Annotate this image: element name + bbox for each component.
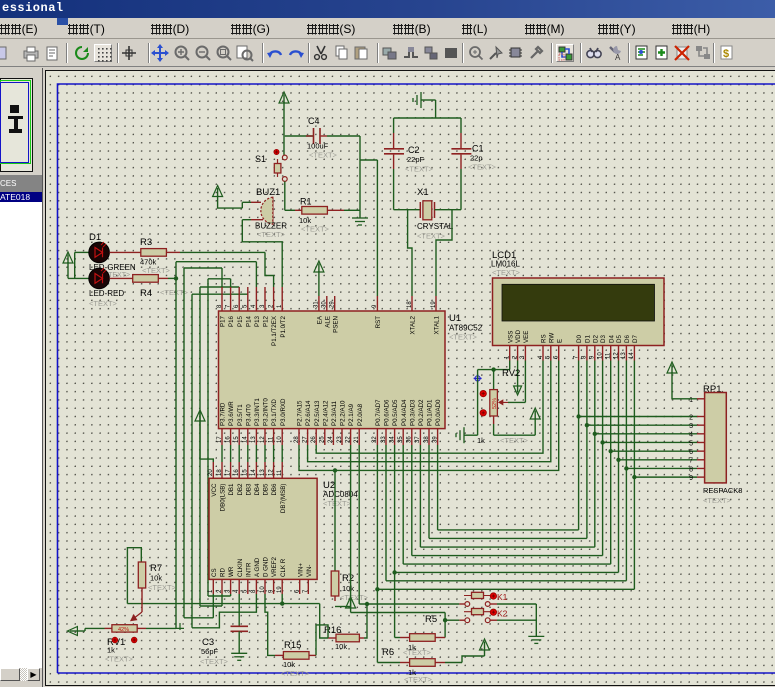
ground [359,210,361,218]
svg-text:33: 33 [381,436,387,443]
power VCC arrow (LEDs) [63,252,73,263]
svg-text:18: 18 [407,301,413,308]
svg-text:2: 2 [689,414,693,421]
U2 pin 19 (CLK R) [281,579,283,594]
power VCC arrow (R6) [445,662,462,664]
svg-text:4: 4 [689,432,693,439]
RP1 pin 1 [697,398,705,400]
svg-text:<TEXT>: <TEXT> [89,299,118,308]
U2 pin 6 (VIN+) [299,579,301,594]
LCD pin 11 (D4) [610,346,612,361]
svg-text:U1: U1 [449,313,461,324]
svg-text:R5: R5 [425,614,437,625]
svg-text:13: 13 [621,352,627,359]
svg-text:A GND: A GND [254,557,261,577]
svg-text:28: 28 [294,436,300,443]
RP1 pin 3 [697,424,705,426]
button K2 [459,619,465,621]
terminal mark [176,623,184,630]
resistor R3 [109,251,140,253]
svg-text:EA: EA [317,315,324,324]
long wire bundle V5 [207,279,209,596]
svg-text:10k: 10k [150,574,162,583]
ground (RV2/VSS) [464,434,478,436]
svg-text:<TEXT>: <TEXT> [142,266,171,275]
svg-text:5: 5 [689,440,693,447]
LCD pin 2 (VDD) [517,346,519,361]
wire data bus D5 (P0.5 - LCD D5 - RP1) [394,445,396,572]
svg-text:<TEXT>: <TEXT> [417,232,446,241]
U2 pin 16 (DB2) [238,462,240,478]
svg-text:DB7(MSB): DB7(MSB) [280,484,287,514]
wire RST net [376,160,378,296]
wire bottom rail (CLK R) [127,603,319,605]
wire [327,135,360,137]
svg-text:D6: D6 [624,335,631,343]
wire data bus D6 (P0.6 - LCD D6 - RP1) [385,445,387,581]
resistor R7 [127,548,141,604]
power VCC arrow (LCD contrast) [530,408,540,419]
wire V5 to WR [208,595,231,597]
svg-text:D1: D1 [89,232,101,243]
svg-text:P1.0/T2: P1.0/T2 [280,315,287,337]
capacitor C2 [393,118,395,133]
svg-text:11: 11 [606,352,612,359]
wire pot bottom to VCC arrow [494,434,536,436]
svg-text:17: 17 [225,469,231,476]
U1 pin 26 (P2.5/A13) [315,429,317,445]
svg-text:VREF2: VREF2 [271,556,278,577]
U1 pin 1 (P1.0/T2) [281,287,283,311]
svg-text:<TEXT>: <TEXT> [200,657,229,666]
svg-text:P2.4/A12: P2.4/A12 [322,400,329,426]
U1 pin 10 (P3.0/RXD) [281,429,283,445]
LCD pin 14 (D7) [633,346,635,361]
U1 pin 27 (P2.6/A14) [307,429,309,445]
RP1 pin 2 [697,416,705,418]
resistor R4 [109,277,132,279]
wire RW net (P2.6 to LCD RW) [308,361,551,462]
svg-text:6: 6 [689,449,693,456]
svg-text:BUZ1: BUZ1 [256,187,280,198]
power VCC arrow (RP1) [667,362,677,373]
wire buzzer to P1.0 [242,220,282,287]
U1 pin 3 (P12) [264,287,266,311]
svg-text:AT89C52: AT89C52 [449,324,483,333]
ground (keys) [528,635,544,637]
wire V2 to CS [184,617,213,619]
svg-text:D7: D7 [632,335,639,343]
svg-text:7: 7 [689,458,693,465]
svg-text:D GND: D GND [263,557,270,577]
svg-text:12: 12 [613,352,619,359]
svg-text:CLK R: CLK R [280,558,287,577]
wire [435,100,437,118]
U1 pin 18 (XTAL2) [411,296,413,311]
U1 pin 37 (P0.2/AD2) [419,429,421,445]
svg-text:14: 14 [629,352,635,359]
U2 pin 17 (DB1) [230,462,232,478]
svg-text:XTAL2: XTAL2 [410,315,417,334]
LCD screen [502,284,655,321]
svg-text:10k: 10k [335,642,347,651]
svg-text:16: 16 [225,436,231,443]
wire data bus D7 (P0.7 - LCD D7 - RP1) [376,445,378,589]
sheet border (blue) [58,84,775,673]
svg-text:P3.7/RD: P3.7/RD [220,402,227,426]
svg-text:P13: P13 [254,315,261,327]
LCD pin 6 (E) [558,346,560,361]
wire R15 left to D GND [265,594,275,655]
wire data bus D4 (P0.4 - LCD D4 - RP1) [402,445,404,564]
svg-text:100uF: 100uF [307,142,329,151]
svg-text:35: 35 [398,436,404,443]
svg-text:34: 34 [389,436,395,443]
svg-text:<TEXT>: <TEXT> [703,496,732,505]
switch S1 [274,149,279,154]
svg-text:<TEXT>: <TEXT> [340,593,369,602]
U1 pin 31 (EA) [318,296,320,311]
svg-text:P3.4/T0: P3.4/T0 [245,404,252,426]
wire K right to ground [497,603,536,605]
U2 pin 1 (CS) [212,579,214,594]
svg-text:P3.3/INT1: P3.3/INT1 [254,398,261,426]
svg-text:S1: S1 [255,154,266,164]
svg-text:C2: C2 [408,145,420,155]
svg-text:38: 38 [424,436,430,443]
svg-text:12: 12 [268,469,274,476]
U2 pin 4 (CLKIN) [238,579,240,594]
svg-text:<TEXT>: <TEXT> [105,655,134,664]
power VCC arrow (R2) [334,596,336,601]
U2 pin 12 (DB6) [273,462,275,478]
svg-text:42%: 42% [118,627,129,633]
U2 pin 10 (D GND) [264,579,266,594]
U1 pin 6 (P15) [238,287,240,311]
wire [285,135,313,137]
svg-text:15: 15 [243,469,249,476]
svg-text:CRYSTAL: CRYSTAL [417,222,454,231]
svg-text:16: 16 [234,469,240,476]
wire R15 right [316,625,328,656]
ground (C3) [231,652,247,654]
svg-text:K2: K2 [497,609,508,619]
RP1 pin 8 [697,467,705,469]
svg-text:1: 1 [689,397,693,404]
LCD pin 9 (D2) [594,346,596,361]
LCD pin 3 (VEE) [524,346,526,361]
U1 pin 28 (P2.7/A15) [298,429,300,445]
svg-text:22p: 22p [470,154,483,163]
U1 pin 38 (P0.1/AD1) [428,429,430,445]
U1 AT89C52 body [219,311,446,429]
U1 pin 34 (P0.5/AD5) [394,429,396,445]
U2 pin 3 (WR) [230,579,232,594]
svg-text:P2.2/A10: P2.2/A10 [340,400,347,426]
wire R3 to P1.1 [180,251,265,253]
svg-text:P3.1/TXD: P3.1/TXD [271,399,278,426]
U1 pin 4 (P13) [255,287,257,311]
svg-text:<TEXT>: <TEXT> [500,436,529,445]
svg-text:24: 24 [328,436,334,443]
wires U1 P3 to U2 DB0-DB7 [221,445,223,462]
svg-text:PSEN: PSEN [332,316,339,333]
svg-text:D2: D2 [592,335,599,343]
svg-text:A: A [615,53,621,62]
svg-text:R15: R15 [284,640,301,651]
LCD pin 4 (RS) [542,346,544,361]
svg-text:8: 8 [689,466,693,473]
U1 pin 23 (P2.2/A10) [341,429,343,445]
U2 pin 5 (INTR) [247,579,249,594]
svg-text:DB2: DB2 [237,483,244,496]
U2 pin 14 (DB4) [255,462,257,478]
svg-text:R1: R1 [300,197,312,207]
svg-text:X1: X1 [417,187,429,198]
svg-text:VCC: VCC [211,483,218,497]
svg-text:19: 19 [277,586,283,593]
wire XTAL1 [436,210,452,296]
wire data bus D1 (P0.1 - LCD D1 - RP1) [428,445,430,538]
svg-text:P17: P17 [220,315,227,327]
button K1 [459,603,465,605]
power VCC arrow (U2 VCC) [195,410,205,421]
LCD pin 10 (D3) [602,346,604,361]
LCD pin 5 (RW) [550,346,552,361]
wire data bus D0 (P0.0 - LCD D0 - RP1) [437,445,439,530]
power VCC arrow (reset circuit) [279,92,289,103]
LCD pin 8 (D1) [586,346,588,361]
svg-text:P0.0/AD0: P0.0/AD0 [435,399,442,426]
svg-text:13: 13 [260,469,266,476]
svg-text:D1: D1 [585,335,592,343]
ground (sideways) for crystal caps [421,99,436,101]
svg-text:C1: C1 [472,144,484,154]
U1 pin 22 (P2.1/A9) [350,429,352,445]
svg-text:23: 23 [337,436,343,443]
LCD pin 12 (D5) [618,346,620,361]
svg-text:VSS: VSS [507,331,514,343]
svg-text:9: 9 [689,475,693,482]
svg-text:ALE: ALE [324,316,331,328]
svg-text:10: 10 [277,436,283,443]
wire XTAL2 [408,210,412,296]
U1 pin 24 (P2.3/A11) [332,429,334,445]
svg-text:$: $ [723,48,729,60]
svg-text:10: 10 [260,586,266,593]
svg-text:R7: R7 [150,563,162,574]
long wire bundle V3 [191,294,193,628]
svg-text:P0.6/AD6: P0.6/AD6 [384,399,391,426]
svg-text:<TEXT>: <TEXT> [323,499,352,508]
U1 pin 7 (P16) [230,287,232,311]
svg-text:14: 14 [243,436,249,443]
long wire bundle V2 [183,268,185,618]
svg-text:14: 14 [251,469,257,476]
wire [283,102,285,155]
svg-text:P2.7/A15: P2.7/A15 [297,400,304,426]
svg-text:P3.6/WR: P3.6/WR [228,401,235,426]
svg-text:52%: 52% [492,398,498,409]
svg-text:<TEXT>: <TEXT> [309,151,338,160]
U2 pin 8 (A GND) [255,579,257,594]
svg-text:P2.0/A8: P2.0/A8 [357,403,364,426]
svg-text:RV2: RV2 [502,368,520,379]
U1 pin 12 (P3.2/INT0) [264,429,266,445]
svg-text:<TEXT>: <TEXT> [468,163,497,172]
wire E net (P2.7 to LCD E) [299,361,559,471]
svg-text:11: 11 [268,436,274,443]
wire R4/pin4 net [176,261,256,263]
wire [477,370,479,436]
svg-text:RESPACK8: RESPACK8 [703,486,742,495]
LCD pin 7 (D0) [578,346,580,361]
svg-text:VDD: VDD [515,329,522,343]
svg-text:18: 18 [217,469,223,476]
LED (LED-RED) [89,268,110,289]
U1 pin 30 (ALE) [326,296,328,311]
svg-text:RST: RST [375,316,382,329]
svg-text:RD: RD [220,568,227,577]
U1 pin 5 (P14) [247,287,249,311]
svg-text:36: 36 [407,436,413,443]
svg-text:<TEXT>: <TEXT> [492,268,521,277]
svg-text:17: 17 [217,436,223,443]
U2 pin 2 (RD) [221,579,223,594]
svg-text:P3.2/INT0: P3.2/INT0 [263,398,270,426]
svg-text:R2: R2 [342,573,354,584]
svg-text:K1: K1 [497,592,508,602]
wire data bus D2 (P0.2 - LCD D2 - RP1) [419,445,421,547]
U2 pin 9 (VREF2) [273,579,275,594]
svg-text:11: 11 [277,469,283,476]
svg-text:R4: R4 [140,288,152,299]
wire [74,252,76,278]
svg-text:DB0(LSB): DB0(LSB) [220,484,227,512]
svg-text:21: 21 [354,436,360,443]
svg-text:P3.0/RXD: P3.0/RXD [280,398,287,426]
wire VDD to power-down arrow [517,361,519,387]
svg-text:P2.6/A14: P2.6/A14 [305,400,312,426]
svg-text:P0.4/AD4: P0.4/AD4 [401,399,408,426]
svg-text:ADC0804: ADC0804 [323,490,358,499]
svg-text:E: E [556,339,563,343]
LCD pin 1 (VSS) [509,346,511,361]
svg-text:<TEXT>: <TEXT> [449,333,478,342]
svg-text:31: 31 [314,301,320,308]
U1 pin 33 (P0.6/AD6) [385,429,387,445]
wire [284,182,286,211]
svg-text:WR: WR [228,566,235,577]
wire RS net (P2.5 to LCD RS) [316,361,543,454]
svg-text:22: 22 [345,436,351,443]
node marker [474,374,482,382]
svg-text:P0.5/AD5: P0.5/AD5 [392,399,399,426]
svg-text:D3: D3 [600,335,607,343]
wire VEE to wiper [524,361,526,403]
svg-text:CLKIN: CLKIN [237,559,244,577]
U1 pin 8 (P17) [221,287,223,311]
U2 pin 20 (VCC) [212,462,214,478]
svg-text:P0.2/AD2: P0.2/AD2 [418,399,425,426]
RP1 pin 6 [697,450,705,452]
wire P2.0 to K1 [358,445,360,604]
wire [218,196,243,209]
svg-text:P0.3/AD3: P0.3/AD3 [409,399,416,426]
svg-text:P3.5/T1: P3.5/T1 [237,404,244,426]
svg-text:R3: R3 [140,237,152,248]
svg-text:DB5: DB5 [263,483,270,496]
wire R16 right to K1 net [364,604,367,638]
U1 pin 39 (P0.0/AD0) [437,429,439,445]
potentiometer RV1 wiper [131,612,142,621]
U2 pin 7 (VIN-) [307,579,309,594]
svg-text:INTR: INTR [245,562,252,577]
svg-text:3: 3 [689,423,693,430]
svg-text:12: 12 [260,436,266,443]
svg-text:D0: D0 [576,335,583,343]
U1 pin 14 (P3.4/T0) [247,429,249,445]
svg-text:VIN-: VIN- [306,565,313,577]
svg-text:39: 39 [432,436,438,443]
U1 pin 9 (RST) [376,296,378,311]
svg-text:29: 29 [330,301,336,308]
long wire bundle V1 (to RV1) [175,262,177,629]
svg-text:D4: D4 [608,335,615,343]
svg-text:32: 32 [372,436,378,443]
U2 ADC0804 body [209,478,317,579]
U1 pin 35 (P0.4/AD4) [402,429,404,445]
svg-text:10: 10 [597,352,603,359]
svg-text:25: 25 [320,436,326,443]
svg-text:<TEXT>: <TEXT> [148,583,177,592]
svg-text:15: 15 [234,436,240,443]
svg-text:C4: C4 [308,116,320,126]
svg-text:<TEXT>: <TEXT> [257,230,286,239]
U1 pin 13 (P3.3/INT1) [255,429,257,445]
svg-text:DB4: DB4 [254,483,261,496]
U2 pin 15 (DB3) [247,462,249,478]
svg-text:<TEXT>: <TEXT> [301,225,330,234]
U2 pin 13 (DB5) [264,462,266,478]
wire VSS net [509,361,511,370]
svg-text:P16: P16 [228,315,235,327]
svg-text:P1.1/T2EX: P1.1/T2EX [271,316,278,346]
U1 pin 36 (P0.3/AD3) [411,429,413,445]
svg-text:1k: 1k [107,646,115,655]
svg-text:20: 20 [208,469,214,476]
svg-text:P2.5/A13: P2.5/A13 [314,400,321,426]
svg-text:R6: R6 [382,647,394,658]
U1 pin 32 (P0.7/AD7) [376,429,378,445]
power VCC arrow (buzzer) [213,186,223,197]
svg-text:P12: P12 [263,315,270,327]
U1 pin 25 (P2.4/A12) [324,429,326,445]
svg-text:P2.1/A9: P2.1/A9 [348,403,355,426]
wire data bus D3 (P0.3 - LCD D3 - RP1) [411,445,413,556]
svg-text:19: 19 [431,301,437,308]
svg-text:RW: RW [548,333,555,343]
svg-text:LED-RED: LED-RED [89,289,124,298]
svg-text:VEE: VEE [523,331,530,343]
svg-text:10k: 10k [342,584,354,593]
svg-text:26: 26 [311,436,317,443]
svg-text:DB1: DB1 [228,483,235,496]
svg-text:P0.1/AD1: P0.1/AD1 [427,399,434,426]
svg-text:DB3: DB3 [245,483,252,496]
U2 pin 11 (DB7(MSB)) [281,462,283,478]
U1 pin 11 (P3.1/TXD) [273,429,275,445]
